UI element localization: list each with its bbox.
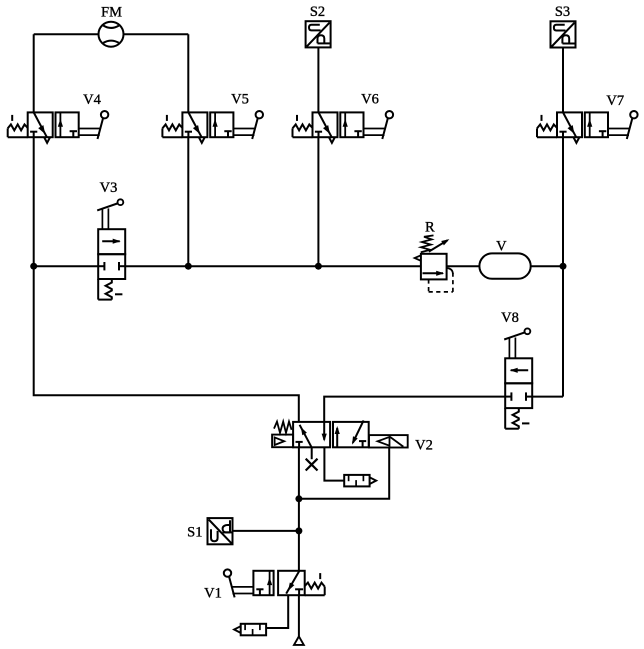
blocked port X below V2 (306, 459, 318, 471)
svg-text:V1: V1 (204, 586, 222, 602)
wire: blocked branch below V2 left position (311, 447, 313, 459)
exhaust vent below V1 (294, 636, 304, 645)
wire: vertical branch from S3 through V7 down to V8 output line (562, 48, 564, 113)
svg-text:S2: S2 (310, 4, 325, 20)
wire: main bus from node A to V3 left port (34, 265, 99, 267)
valve V2 (3/2 pilot valve with spring and pneumatic pilots) (293, 422, 330, 447)
wire: vertical branch from S2 through V6 to main bus (317, 48, 319, 113)
pressure regulator R (421, 254, 447, 280)
node: V5 branch on main bus (185, 263, 192, 270)
node: S1 junction on supply riser (295, 527, 302, 534)
valve V7 (3/2 hand-lever valve) (557, 112, 582, 137)
wire: left riser from node A down and across to V2 supply port (34, 266, 299, 422)
valve V3 (2/2 lever shut-off valve) (98, 229, 125, 254)
reservoir V (479, 253, 530, 278)
svg-text:V8: V8 (501, 310, 519, 326)
svg-text:FM: FM (101, 5, 122, 21)
svg-text:V: V (496, 239, 507, 255)
wire: vertical branch through V5 (FM line to main bus) (187, 34, 189, 112)
pressure switch S1 (208, 518, 233, 544)
wire: V8 right port to V7 branch riser (532, 396, 563, 398)
svg-text:V5: V5 (231, 92, 249, 108)
wire: V1 output to bottom muffler (266, 595, 288, 628)
wire: main supply riser from V2 bottom port down to V1 (298, 447, 300, 571)
svg-text:S3: S3 (555, 4, 570, 20)
node: V7 branch on main bus (560, 263, 567, 270)
svg-text:V4: V4 (83, 92, 101, 108)
muffler at V1 port (241, 624, 266, 636)
flow meter FM (99, 22, 124, 47)
node: pilot line junction on supply riser (295, 495, 302, 502)
svg-text:R: R (425, 220, 435, 236)
wire: S1 sensing line to supply riser (233, 530, 299, 532)
svg-text:V7: V7 (606, 93, 624, 109)
svg-text:S1: S1 (187, 525, 202, 541)
valve V8 (2/2 lever shut-off valve) (505, 358, 532, 383)
svg-text:V2: V2 (415, 438, 433, 454)
wire: main bus from regulator R to reservoir V (447, 265, 480, 267)
valve V1 (3/2 hand-lever valve, supply) (253, 571, 273, 595)
wire: vertical branch through V4 (FM line to main bus) (33, 34, 35, 112)
svg-text:V3: V3 (100, 180, 118, 196)
wire: V1 exhaust down to vent (298, 595, 300, 636)
wire: V2 exhaust port down to muffler (324, 447, 344, 480)
svg-text:V6: V6 (361, 92, 379, 108)
valve V4 (3/2 hand-lever valve) (28, 112, 53, 137)
valve V5 (3/2 hand-lever valve) (182, 112, 207, 137)
node A: junction of FM branch, main bus and left riser (30, 263, 37, 270)
wire: pilot line from V2 right pilot down to supply junction (299, 448, 389, 499)
wire: main bus from V3 right port to regulator R (125, 265, 421, 267)
pressure switch S2 (306, 21, 331, 47)
wire: FM supply line from V4 branch to V5 branch (34, 33, 99, 35)
node: V6 branch on main bus (315, 263, 322, 270)
muffler at V2 exhaust (344, 475, 369, 487)
pressure switch S3 (551, 21, 576, 47)
valve V6 (3/2 hand-lever valve) (313, 112, 338, 137)
wire: V2 output up and across to V8 left port (324, 397, 505, 422)
wire: main bus from reservoir V to V7 branch node (531, 265, 563, 267)
